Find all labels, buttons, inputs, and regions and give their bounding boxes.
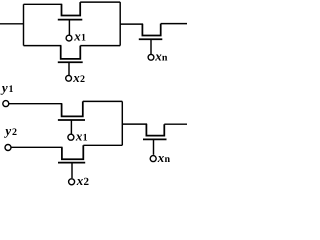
wire: bottom circuit right vertical (branch merge) — [121, 101, 123, 145]
wire: merge node to transistor xn (bottom) — [122, 123, 147, 125]
wire: top circuit right vertical (branch merge) — [119, 2, 121, 46]
transistor xn (bottom circuit) gate bar — [143, 138, 167, 140]
wire: bottom x2 drain to right vertical — [83, 144, 122, 146]
svg-text:x1: x1 — [73, 29, 86, 44]
wire: x2 gate lead — [68, 62, 70, 75]
terminal circle x1 (top) — [66, 35, 72, 41]
wire: top circuit left vertical (branch split) — [23, 4, 25, 45]
transistor xn (top circuit) channel — [142, 24, 160, 36]
transistor x2 (top circuit) channel — [61, 46, 81, 59]
wire: x1 drain to right vertical — [80, 1, 120, 3]
svg-text:x2: x2 — [76, 173, 90, 187]
terminal circle y2 input — [5, 145, 11, 151]
svg-text:xn: xn — [157, 150, 171, 165]
terminal circle xn (bottom) — [150, 156, 156, 162]
wire: top circuit input lead — [0, 23, 24, 25]
transistor x1 (bottom circuit) channel — [62, 101, 83, 116]
wire: bottom circuit output lead — [164, 123, 187, 125]
wire: x2 drain to right vertical — [80, 45, 120, 47]
transistor xn (top circuit) gate bar — [139, 38, 163, 40]
svg-text:xn: xn — [154, 49, 168, 64]
transistor xn (bottom circuit) channel — [146, 124, 164, 136]
wire: bottom x2 gate lead — [71, 163, 73, 179]
svg-text:x2: x2 — [72, 70, 85, 85]
transistor x1 (top circuit) channel — [62, 2, 81, 15]
transistor x2 (top circuit) gate bar — [58, 61, 83, 63]
terminal circle y1 input — [3, 101, 9, 107]
wire: top branch to transistor x1 — [24, 3, 63, 5]
terminal circle xn (top) — [148, 54, 154, 60]
wire: x1 gate lead — [68, 20, 70, 36]
wire: top circuit output lead — [161, 23, 187, 25]
terminal circle x2 (top) — [66, 75, 72, 81]
wire: merge node to transistor xn (top) — [120, 23, 143, 25]
wire: xn gate lead — [150, 39, 152, 54]
transistor x2 (bottom circuit) gate bar — [58, 162, 85, 164]
transistor x1 (top circuit) gate bar — [58, 19, 83, 21]
wire: bottom x1 drain to right vertical — [83, 100, 123, 102]
svg-text:y1: y1 — [0, 80, 13, 95]
wire: y2 input to transistor x2 (bottom) — [11, 146, 62, 148]
terminal circle x2 (bottom) — [69, 179, 75, 185]
svg-text:x1: x1 — [75, 129, 88, 144]
terminal circle x1 (bottom) — [68, 134, 74, 140]
transistor x2 (bottom circuit) channel — [62, 145, 83, 159]
wire: bottom xn gate lead — [153, 139, 155, 154]
wire: bottom x1 gate lead — [70, 120, 72, 134]
transistor x1 (bottom circuit) gate bar — [58, 119, 85, 121]
wire: y1 input to transistor x1 (bottom) — [9, 103, 62, 105]
svg-text:y2: y2 — [3, 123, 17, 138]
wire: bottom branch to transistor x2 — [24, 45, 62, 47]
